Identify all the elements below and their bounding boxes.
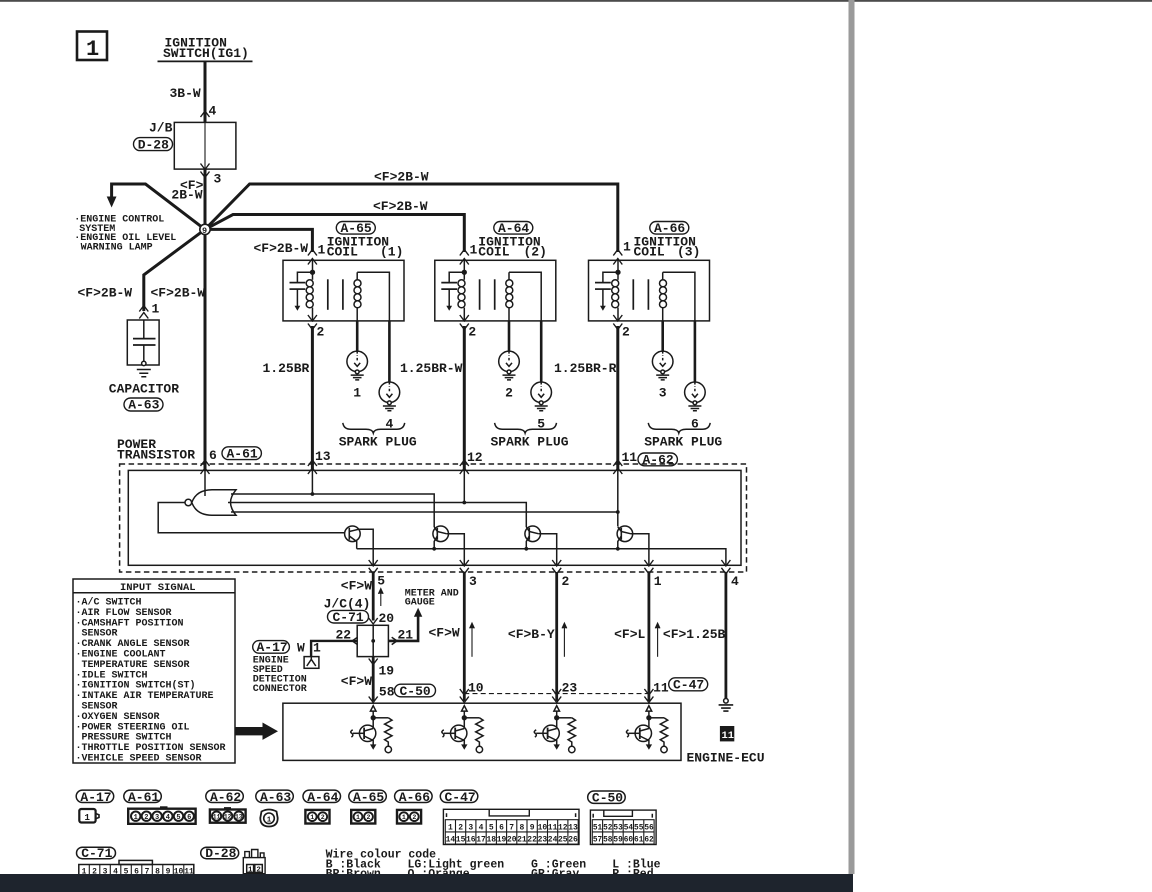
gate output line top (to Q2) — [231, 494, 434, 527]
svg-text:D-28: D-28 — [205, 846, 236, 861]
wire coil 2 secondary to spark plug 2 — [508, 321, 511, 351]
connector oval C-47 (bottom) — [440, 790, 478, 805]
svg-text:·THROTTLE POSITION SENSOR: ·THROTTLE POSITION SENSOR — [76, 743, 226, 754]
svg-text:<F>B-Y: <F>B-Y — [508, 627, 555, 642]
wire coil 3 pin 2 to power transistor pin 11 — [616, 326, 619, 470]
svg-text:A-61: A-61 — [227, 447, 258, 462]
svg-text:1: 1 — [85, 813, 91, 823]
emitter bus — [357, 549, 726, 565]
ECU driver circuit 1 — [351, 706, 392, 753]
svg-text:11: 11 — [722, 730, 735, 742]
input signal arrow to ECU — [235, 723, 278, 740]
svg-text:COIL: COIL — [634, 245, 665, 260]
svg-text:20: 20 — [379, 611, 395, 626]
svg-text:3B-W: 3B-W — [170, 86, 201, 101]
svg-text:ENGINE-ECU: ENGINE-ECU — [687, 751, 765, 766]
ECU driver circuit 4 — [626, 706, 667, 753]
svg-text:1: 1 — [356, 814, 360, 821]
svg-text:TRANSISTOR: TRANSISTOR — [117, 448, 195, 463]
C-47 dashed crossing arrows wire 23 — [552, 689, 561, 695]
svg-text:1: 1 — [86, 37, 99, 62]
C-47 dashed crossing arrows wire 10 — [460, 689, 469, 695]
wire J/C pin 21 to meter and gauge — [388, 616, 418, 641]
power transistor inner solid box — [128, 470, 741, 565]
connector icon A-66 — [397, 810, 421, 824]
svg-text:11: 11 — [653, 681, 669, 696]
meter wire arrowhead — [414, 608, 422, 617]
svg-text:11: 11 — [548, 823, 558, 832]
connector oval C-71 (bottom) — [77, 846, 116, 861]
connector icon A-62 — [210, 807, 246, 823]
J/C center junction dot — [371, 639, 375, 643]
wire coil 1 to spark plug 4 — [388, 321, 391, 382]
label ENGINE SPEED DETECTION CONNECTOR — [253, 655, 307, 695]
ECU driver circuit 3 — [534, 706, 575, 753]
connector oval A-65 — [336, 221, 375, 236]
wire pin 11 to gate line and transistor Q4 — [617, 470, 619, 526]
bottom dark bar — [0, 874, 853, 892]
connector icon C-71 pin row — [79, 860, 194, 876]
svg-text:1: 1 — [248, 866, 253, 874]
svg-text:52: 52 — [603, 824, 613, 832]
connector oval A-17 — [253, 640, 290, 655]
spark plug 1 — [347, 351, 368, 380]
ignition coil 3 body — [589, 260, 710, 321]
capacitor pin 1 arrows — [139, 306, 148, 312]
svg-text:1: 1 — [353, 386, 361, 401]
svg-text:2: 2 — [505, 386, 513, 401]
connector oval C-50 — [395, 684, 436, 699]
J/C exit arrow — [369, 659, 378, 665]
wire branch to engine control system (up-left arrow) — [107, 184, 205, 229]
svg-text:<F>2B-W: <F>2B-W — [373, 199, 428, 214]
wire pin 13 to gate line — [311, 470, 313, 494]
svg-text:1: 1 — [654, 574, 662, 589]
pin 3 arrows below J/B — [201, 164, 210, 170]
svg-text:5: 5 — [489, 823, 494, 832]
svg-text:J/B: J/B — [149, 121, 173, 136]
junction Q2 emitter / bus — [432, 547, 436, 551]
wire J/B to node 9 — [204, 169, 207, 229]
spark plug 4 — [379, 382, 400, 411]
svg-text:·OXYGEN SENSOR: ·OXYGEN SENSOR — [76, 712, 160, 723]
wire pin 6 to gate — [204, 470, 206, 496]
connector oval A-62 — [638, 453, 677, 468]
svg-text:12: 12 — [224, 813, 232, 820]
coil 3 pin 1 arrows — [613, 250, 622, 256]
connector oval A-63 — [124, 398, 163, 413]
ground reference number 11 black box — [720, 726, 734, 742]
svg-text:<F>W: <F>W — [341, 674, 372, 689]
svg-text:A-66: A-66 — [399, 790, 430, 805]
gate output line bottom (to pin 11 node) — [231, 511, 618, 513]
wire 4 (to ground) — [725, 572, 728, 699]
J/C entry arrow — [369, 618, 378, 624]
svg-text:SPARK PLUG: SPARK PLUG — [644, 434, 722, 449]
coil 3 pin 2 arrows — [613, 315, 622, 321]
svg-text:(2): (2) — [524, 245, 547, 260]
right gray page divider strip — [849, 0, 855, 874]
gate output line middle (to Q3) — [228, 503, 526, 528]
svg-text:C-47: C-47 — [673, 678, 704, 693]
pin 4 arrow into J/B — [201, 111, 210, 117]
svg-text:1: 1 — [318, 243, 326, 258]
svg-text:1.25BR: 1.25BR — [263, 361, 310, 376]
svg-text:·CAMSHAFT POSITION: ·CAMSHAFT POSITION — [76, 618, 184, 629]
svg-text:(3): (3) — [677, 245, 700, 260]
connector oval A-17 (bottom) — [76, 790, 114, 805]
wire pin 12 to gate line — [463, 470, 465, 502]
spark plug 5 — [531, 382, 552, 411]
svg-text:·CRANK ANGLE SENSOR: ·CRANK ANGLE SENSOR — [76, 639, 190, 650]
svg-text:53: 53 — [613, 824, 623, 832]
svg-text:6: 6 — [499, 823, 504, 832]
svg-text:D-28: D-28 — [138, 137, 169, 152]
connector oval D-28 (bottom) — [201, 846, 239, 861]
svg-text:23: 23 — [538, 836, 548, 845]
connector oval A-61 (bottom) — [124, 790, 162, 805]
svg-text:1: 1 — [448, 823, 453, 832]
gate bubble loop to Q1 base — [158, 503, 344, 533]
output 5 exit arrows — [369, 560, 378, 566]
connector icon A-61 — [128, 806, 195, 824]
pin 12 entry arrows — [460, 460, 469, 466]
svg-text:·ENGINE COOLANT: ·ENGINE COOLANT — [76, 650, 166, 661]
svg-text:26: 26 — [568, 836, 578, 845]
svg-text:·INTAKE AIR TEMPERATURE: ·INTAKE AIR TEMPERATURE — [76, 691, 214, 702]
ECU entry arrow pin 10 — [460, 697, 469, 703]
wire 2 — [555, 572, 558, 701]
output 3 exit arrows — [460, 560, 469, 566]
transistor Q3 — [525, 526, 541, 549]
connector icon C-47 pin grid — [443, 809, 579, 844]
connector icon A-65 — [351, 810, 375, 824]
svg-text:SPARK PLUG: SPARK PLUG — [491, 434, 569, 449]
wire Q3 collector to output 2 — [539, 534, 557, 565]
svg-text:1.25BR-W: 1.25BR-W — [400, 361, 463, 376]
connector oval A-61 — [222, 447, 261, 462]
connector oval A-66 (bottom) — [395, 790, 433, 805]
svg-text:WARNING LAMP: WARNING LAMP — [81, 243, 153, 254]
svg-text:2: 2 — [622, 325, 630, 340]
svg-text:3: 3 — [155, 814, 159, 822]
svg-text:22: 22 — [527, 836, 537, 845]
svg-text:17: 17 — [476, 836, 486, 845]
svg-text:GAUGE: GAUGE — [405, 598, 435, 609]
svg-text:SPARK PLUG: SPARK PLUG — [339, 434, 417, 449]
svg-text:TEMPERATURE SENSOR: TEMPERATURE SENSOR — [82, 660, 190, 671]
svg-text:C-50: C-50 — [592, 791, 623, 806]
svg-text:A-62: A-62 — [643, 453, 674, 468]
svg-text:SWITCH(IG1): SWITCH(IG1) — [163, 46, 249, 61]
svg-text:22: 22 — [336, 627, 352, 642]
logic gate U1 — [185, 490, 236, 515]
svg-text:2: 2 — [367, 814, 371, 821]
svg-text:2: 2 — [412, 814, 416, 821]
svg-text:59: 59 — [613, 837, 623, 845]
svg-text:2: 2 — [144, 814, 148, 822]
wire node 9 down to power transistor pin 6 — [204, 229, 207, 470]
svg-text:3: 3 — [469, 574, 477, 589]
junction pin 12 / gate line — [462, 501, 466, 505]
ECU entry arrow pin 58 — [369, 697, 378, 703]
direction arrow wire 1 — [655, 623, 660, 657]
svg-text:2: 2 — [468, 325, 476, 340]
svg-text:2: 2 — [256, 866, 261, 874]
wire Q4 collector to output 1 — [631, 534, 649, 565]
connector oval A-63 (bottom) — [256, 790, 293, 805]
wire node 9 to ignition coil 2 (middle line) — [205, 215, 464, 253]
svg-text:<F>W: <F>W — [341, 579, 372, 594]
svg-text:5: 5 — [377, 574, 385, 589]
output 1 exit arrows — [644, 560, 653, 566]
svg-text:·A/C SWITCH: ·A/C SWITCH — [76, 597, 142, 609]
direction arrow wire 2 — [562, 623, 567, 657]
svg-text:C-50: C-50 — [400, 684, 431, 699]
svg-text:A-17: A-17 — [80, 790, 111, 805]
svg-text:57: 57 — [593, 837, 603, 845]
svg-text:A-62: A-62 — [210, 790, 241, 805]
spark plug 3 — [652, 351, 673, 380]
svg-text:61: 61 — [634, 837, 644, 845]
junction Q3 emitter / bus — [524, 547, 528, 551]
wire Q2 collector to output 3 — [447, 534, 465, 565]
svg-text:3: 3 — [659, 386, 667, 401]
svg-text:COIL: COIL — [327, 245, 358, 260]
svg-text:<F>2B-W: <F>2B-W — [374, 170, 429, 185]
output 2 exit arrows — [552, 560, 561, 566]
svg-text:3: 3 — [468, 823, 473, 832]
svg-text:1: 1 — [267, 816, 272, 824]
svg-text:51: 51 — [593, 824, 603, 832]
wire coil 2 to spark plug 5 — [540, 321, 543, 382]
pin 21 arrow — [392, 637, 397, 644]
svg-text:13: 13 — [235, 813, 243, 820]
pin 22 arrow — [352, 637, 357, 644]
svg-text:COIL: COIL — [478, 245, 509, 260]
connector icon A-64 — [305, 810, 329, 824]
wire coil 2 pin 2 to power transistor pin 12 — [463, 326, 466, 470]
ECU entry arrow pin 23 — [552, 697, 561, 703]
power transistor outer dashed box — [120, 464, 747, 572]
svg-text:13: 13 — [315, 449, 331, 464]
svg-text:C-71: C-71 — [333, 610, 364, 625]
connector oval A-65 (bottom) — [349, 790, 387, 805]
svg-text:6: 6 — [187, 814, 191, 822]
svg-text:A-65: A-65 — [353, 790, 384, 805]
svg-text:4: 4 — [479, 823, 484, 832]
engine speed detection connector symbol — [304, 657, 319, 669]
svg-text:4: 4 — [166, 814, 170, 822]
svg-text:12: 12 — [558, 823, 568, 832]
connector icon D-28 — [243, 850, 265, 875]
transistor Q4 — [617, 526, 633, 549]
output 4 exit arrows — [721, 560, 730, 566]
svg-text:23: 23 — [562, 681, 578, 696]
ignition coil 2 body — [435, 260, 556, 321]
svg-text:INPUT SIGNAL: INPUT SIGNAL — [120, 582, 196, 594]
ECU entry arrow pin 11 — [644, 697, 653, 703]
wire coil 3 secondary to spark plug 3 — [661, 321, 664, 351]
connector oval C-71 — [328, 610, 369, 625]
pin 11 entry arrows — [613, 460, 622, 466]
svg-text:7: 7 — [509, 823, 514, 832]
connector oval A-66 — [650, 221, 689, 236]
dark bar overlay (covers clipped legend row) — [0, 874, 853, 892]
wire colour code legend — [326, 848, 661, 881]
svg-text:14: 14 — [446, 836, 456, 845]
direction arrow wire 3 — [470, 623, 475, 657]
svg-text:54: 54 — [624, 824, 634, 832]
svg-text:3: 3 — [214, 172, 222, 187]
svg-text:18: 18 — [486, 836, 496, 845]
svg-text:SENSOR: SENSOR — [82, 702, 118, 713]
svg-text:2: 2 — [458, 823, 463, 832]
spark plug brace coil 1 — [343, 423, 405, 433]
svg-text:1: 1 — [470, 243, 478, 258]
wire coil 1 pin 2 to power transistor pin 13 — [311, 326, 314, 470]
svg-text:1: 1 — [310, 814, 314, 821]
svg-text:10: 10 — [468, 681, 484, 696]
wire 5 (power transistor to J/C) — [372, 572, 375, 621]
svg-text:58: 58 — [603, 837, 613, 845]
svg-text:A-64: A-64 — [307, 790, 338, 805]
svg-text:16: 16 — [466, 836, 476, 845]
node 9 junction circle — [200, 224, 210, 236]
C-47 dashed crossing arrows wire 11 — [644, 689, 653, 695]
svg-text:·VEHICLE SPEED SENSOR: ·VEHICLE SPEED SENSOR — [76, 754, 202, 765]
coil 1 pin 2 arrows — [308, 315, 317, 321]
junction pin 13 / gate line — [311, 492, 315, 496]
svg-text:(1): (1) — [380, 245, 403, 260]
coil 2 pin 1 arrows — [460, 250, 469, 256]
wire J/C pin 19 to ECU pin 58 — [372, 657, 375, 701]
top page edge line — [0, 0, 1152, 2]
junction pin 11 / gate line — [616, 510, 620, 514]
svg-text:4: 4 — [731, 574, 739, 589]
pin 13 entry arrows — [308, 460, 317, 466]
svg-text:25: 25 — [558, 836, 568, 845]
svg-text:A-61: A-61 — [128, 790, 159, 805]
svg-text:21: 21 — [517, 836, 527, 845]
wire 1 — [648, 572, 651, 701]
svg-text:A-63: A-63 — [260, 790, 291, 805]
svg-text:1: 1 — [402, 814, 406, 821]
svg-text:CONNECTOR: CONNECTOR — [253, 684, 307, 695]
joint connector J/C box — [357, 625, 388, 656]
chassis ground wire 4 — [719, 699, 734, 712]
svg-text:6: 6 — [209, 448, 217, 463]
svg-text:·IGNITION SWITCH(ST): ·IGNITION SWITCH(ST) — [76, 680, 196, 692]
connector oval A-62 (bottom) — [206, 790, 244, 805]
wire coil 1 secondary to spark plug 1 — [356, 321, 359, 351]
svg-text:60: 60 — [624, 837, 634, 845]
svg-text:·POWER STEERING OIL: ·POWER STEERING OIL — [76, 722, 190, 733]
svg-text:19: 19 — [379, 664, 395, 679]
connector icon C-50 pin grid — [590, 810, 656, 845]
svg-text:A-17: A-17 — [257, 640, 288, 655]
direction arrow wire 5 — [378, 589, 383, 606]
svg-text:2B-W: 2B-W — [171, 188, 202, 203]
spark plug 2 — [499, 351, 520, 380]
svg-text:1: 1 — [313, 641, 321, 656]
svg-text:1: 1 — [152, 302, 160, 317]
wire Q1 collector to output 5 — [359, 529, 374, 564]
svg-text:9: 9 — [202, 226, 207, 236]
ECU box — [283, 703, 681, 760]
svg-text:62: 62 — [644, 837, 654, 845]
annotation engine control system / oil level lamp — [74, 215, 176, 254]
svg-text:1: 1 — [623, 240, 631, 255]
svg-text:·AIR FLOW SENSOR: ·AIR FLOW SENSOR — [76, 608, 172, 619]
svg-text:2: 2 — [317, 325, 325, 340]
svg-text:10: 10 — [538, 823, 548, 832]
svg-text:<F>2B-W: <F>2B-W — [78, 286, 133, 301]
svg-text:<F>L: <F>L — [614, 627, 645, 642]
svg-text:<F>2B-W: <F>2B-W — [254, 241, 309, 256]
label IGNITION SWITCH(IG1) — [158, 36, 253, 62]
svg-text:W: W — [297, 641, 305, 656]
svg-text:CAPACITOR: CAPACITOR — [109, 382, 179, 397]
svg-text:12: 12 — [467, 450, 483, 465]
junction Q4 emitter / bus — [616, 547, 620, 551]
connector oval D-28 — [134, 137, 173, 152]
svg-text:55: 55 — [634, 824, 644, 832]
svg-text:2: 2 — [562, 574, 570, 589]
svg-text:1: 1 — [134, 814, 138, 822]
svg-text:C-71: C-71 — [81, 846, 112, 861]
wire J/C to pin 22 (A-17) — [311, 641, 357, 657]
svg-text:58: 58 — [379, 685, 395, 700]
svg-text:8: 8 — [519, 823, 524, 832]
coil 2 pin 2 arrows — [460, 315, 469, 321]
ECU driver circuit 2 — [442, 706, 483, 753]
wire node 9 to ignition coil 1 — [205, 229, 312, 252]
figure number box 1 — [77, 32, 107, 63]
svg-text:24: 24 — [548, 836, 558, 845]
svg-text:13: 13 — [568, 823, 578, 832]
svg-text:1.25BR-R: 1.25BR-R — [554, 361, 617, 376]
connector oval A-64 (bottom) — [303, 790, 341, 805]
svg-text:A-63: A-63 — [128, 398, 159, 413]
dashed connector boundary C-47 — [464, 693, 649, 695]
connector oval C-47 — [669, 678, 708, 693]
svg-text:PRESSURE SWITCH: PRESSURE SWITCH — [82, 733, 172, 744]
svg-text:2: 2 — [321, 814, 325, 821]
svg-text:20: 20 — [507, 836, 517, 845]
coil 1 pin 1 arrows — [308, 250, 317, 256]
svg-text:15: 15 — [456, 836, 466, 845]
transistor Q1 — [345, 526, 361, 549]
svg-text:19: 19 — [497, 836, 507, 845]
svg-text:SENSOR: SENSOR — [82, 629, 118, 640]
svg-text:11: 11 — [213, 813, 221, 820]
svg-text:9: 9 — [530, 823, 535, 832]
connector icon A-63 — [260, 810, 277, 827]
wire coil 3 to spark plug 6 — [694, 321, 697, 382]
transistor Q2 — [433, 526, 449, 549]
spark plug brace coil 2 — [495, 423, 557, 433]
wire node 9 to capacitor — [144, 229, 205, 311]
connector oval C-50 (bottom) — [588, 791, 626, 806]
wire node 9 to ignition coil 3 (top line) — [205, 184, 618, 252]
junction block J/B — [149, 121, 236, 170]
svg-text:<F>1.25B: <F>1.25B — [663, 627, 726, 642]
wire 3 — [463, 572, 466, 701]
capacitor C (A-63) — [127, 320, 159, 377]
connector oval A-64 — [494, 221, 533, 236]
wire ignition switch to J/B — [204, 61, 207, 122]
